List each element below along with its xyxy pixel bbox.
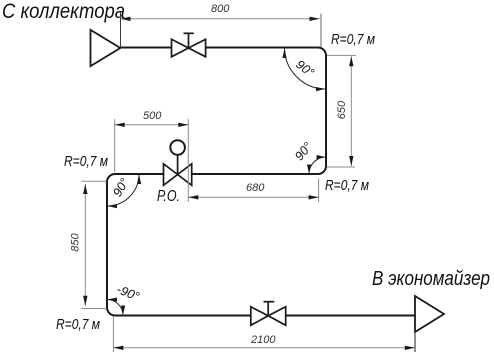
dimension 680 xyxy=(188,179,318,203)
svg-text:В экономайзер: В экономайзер xyxy=(372,268,490,290)
control valve P.O. xyxy=(164,140,192,185)
svg-text:R=0,7 м: R=0,7 м xyxy=(331,31,375,48)
svg-text:Р.О.: Р.О. xyxy=(157,188,180,205)
svg-text:R=0,7 м: R=0,7 м xyxy=(64,153,108,170)
svg-text:650: 650 xyxy=(336,100,348,119)
flow arrow from collector xyxy=(91,30,121,66)
pipe main run xyxy=(107,48,415,316)
svg-text:800: 800 xyxy=(211,3,230,15)
dimension 800 xyxy=(121,3,322,47)
dimension 500 xyxy=(115,110,189,202)
svg-text:500: 500 xyxy=(143,110,162,122)
svg-text:С коллектора: С коллектора xyxy=(2,0,125,23)
valve V1 on top pipe xyxy=(172,33,206,57)
angle 90 bottom-left corner xyxy=(107,282,141,315)
svg-text:R=0,7 м: R=0,7 м xyxy=(325,177,369,194)
svg-text:850: 850 xyxy=(70,232,82,251)
angle 90 top-right corner xyxy=(282,48,326,92)
svg-text:R=0,7 м: R=0,7 м xyxy=(56,316,100,333)
valve V3 on bottom pipe xyxy=(251,302,286,326)
dimension 850 xyxy=(70,181,107,308)
svg-text:680: 680 xyxy=(246,182,265,194)
angle 90 left-top corner xyxy=(107,174,141,208)
flow arrow to economizer xyxy=(415,296,444,332)
dimension 2100 xyxy=(113,316,415,352)
dimension 650 xyxy=(327,55,356,167)
angle 90 right-bottom corner xyxy=(292,140,326,174)
svg-text:2100: 2100 xyxy=(250,334,276,346)
